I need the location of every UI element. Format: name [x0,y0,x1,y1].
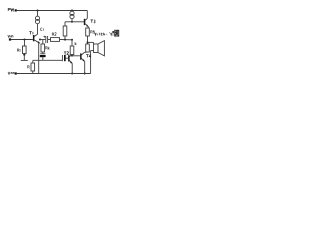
power terminal [15,9,17,11]
transistor T3 [84,19,86,25]
speaker LS1 [94,44,98,53]
node input branch [24,39,26,41]
label R5 [91,31,95,34]
wire T4 emitter down [84,61,86,73]
resistor RB [70,46,74,55]
ground label 0V [8,72,14,75]
wire RB down to T2 collector [71,40,73,46]
node RB top [71,39,73,41]
wire speaker top [88,41,94,43]
inductor L2 [70,11,74,15]
node T4 emitter rail [84,73,86,75]
wire RA lead down [64,36,66,40]
label T1 [29,32,33,35]
capacitor C2 [45,36,47,43]
wire branch to R3 [42,40,44,44]
wire down to R4 [32,60,34,63]
node T1 emitter [39,39,41,41]
capacitor C4 [61,55,63,61]
transistor T4 [80,53,82,59]
resistor RA [63,26,67,36]
watermark text [95,33,112,36]
wire input to T1 base [11,39,33,41]
wire L2 to node [71,19,73,22]
wire R3 to C3 [42,52,44,54]
wire L2 top lead [71,11,73,12]
node R1 bottom [23,54,25,56]
wire node to T3 base [72,21,84,23]
input terminal [9,38,11,40]
wire T2 emitter down [71,63,73,73]
capacitor C3 electrolytic [40,53,45,55]
resistor R4 [31,63,35,71]
label R4 [28,66,30,69]
wire speaker bottom [91,50,94,52]
input label Vin [8,35,13,37]
wire R4 to rail [32,71,34,74]
node rail-L2 [71,10,73,12]
ground terminal [15,72,17,74]
inductor L1 [35,16,39,20]
label T3 [91,20,96,23]
wire R5 down [87,36,89,44]
node RA bottom [64,39,66,41]
wire rail corner down to T3 collector [86,11,88,19]
node T2 emitter rail [71,73,73,75]
node speaker tap [87,41,89,43]
wire RA top to node [64,22,66,26]
wire mid-bottom horizontal [33,59,63,61]
label T2 [64,52,69,55]
resistor R3 [41,44,45,52]
wire C2 to R2 [48,39,51,41]
resistor R1 [23,46,27,54]
node T2 collector [71,55,73,57]
resistor R6 [86,44,90,52]
wire emitter node right [40,39,45,41]
wire R1 to ground [23,56,25,60]
transistor T1 [33,35,35,41]
wire C3 down [42,57,44,60]
label R3 [46,47,50,50]
wire top rail [17,10,88,12]
node rail-L1 [37,10,39,12]
wire C4 to T2 base [66,57,68,59]
wire R2 to node mid [60,39,73,41]
label near L1 [40,28,43,31]
resistor R5 [86,28,90,36]
label R1 [17,49,20,52]
resistor R2 [51,38,60,42]
power label +9V [8,8,14,11]
qr block [112,30,119,37]
wire T1 emitter down to rail [38,43,40,74]
wire branch down to R1 [24,40,26,47]
wire R6 bottom to T4 collector [85,51,88,53]
wire L1 top lead [37,11,39,17]
capacitor C2 plus [43,36,45,38]
wire to T4 base [72,55,80,57]
transistor T2 [68,55,70,61]
node under L2 [71,21,73,23]
label k [75,42,77,45]
label R2 [52,33,56,36]
label T4 [86,55,91,58]
wire L1 to T1 collector [37,24,39,35]
ground [21,59,28,61]
wire RB to T2 collector node [71,55,73,56]
wire bottom rail [17,73,91,75]
wire T3 emitter to R5 [87,26,89,29]
